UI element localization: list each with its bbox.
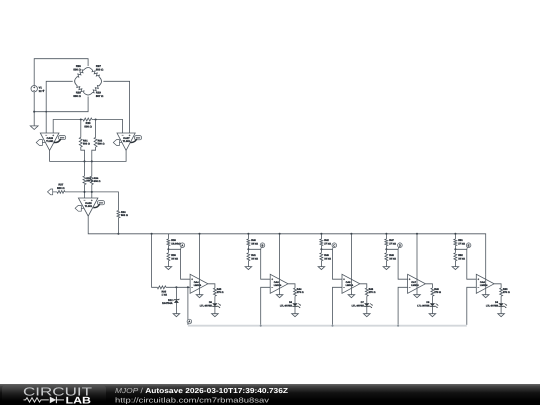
node main-power stage1 xyxy=(198,233,200,235)
wire bridge right node to OA27 input xyxy=(103,81,129,133)
resistor R44 stage2 xyxy=(294,288,297,296)
wire output stage5 xyxy=(494,284,501,288)
svg-text:1 kΩ: 1 kΩ xyxy=(162,294,167,297)
op-amp OA26 xyxy=(40,133,59,150)
resistor R53 stage5 xyxy=(500,288,503,296)
resistor R49 stage4 xyxy=(431,288,434,296)
resistor R30 xyxy=(83,118,92,121)
wire R30 to OA27 -in xyxy=(92,120,123,134)
node main-divider stage2 xyxy=(247,233,249,235)
LED D5 stage1 xyxy=(212,303,217,306)
wire output stage2 xyxy=(288,284,295,288)
net flag R37 xyxy=(48,189,53,195)
resistor bridge R26 R27 R28 R29 xyxy=(75,67,102,95)
node main-power stage2 xyxy=(279,233,281,235)
flag D stage4 xyxy=(397,247,400,249)
node divider tap stage4 xyxy=(385,248,387,250)
svg-text:LM324: LM324 xyxy=(194,284,202,287)
ground op-amp stage4 xyxy=(414,295,421,298)
wire V1 minus to bridge bottom xyxy=(34,92,88,112)
power flag OA27 right xyxy=(134,136,141,140)
node bus junction xyxy=(397,325,399,327)
svg-text:1N4734A: 1N4734A xyxy=(162,302,173,305)
op-amp OA7 stage4 xyxy=(408,274,426,293)
wire bus riser stage1 xyxy=(187,287,189,325)
svg-text:270 Ω: 270 Ω xyxy=(434,291,441,294)
wire output stage4 xyxy=(425,284,432,288)
node main-divider stage4 xyxy=(385,233,387,235)
resistor R32 xyxy=(95,120,97,138)
op-amp OA5 stage2 xyxy=(270,274,288,293)
flag B stage2 xyxy=(260,247,263,249)
node V1-gnd junction xyxy=(33,111,35,113)
ground LED stage3 xyxy=(364,314,371,317)
wire -in to bus stage5 xyxy=(467,287,477,325)
svg-text:D: D xyxy=(399,243,401,247)
wire tap to +in stage1 xyxy=(168,249,190,279)
node divider tap stage2 xyxy=(247,248,249,250)
ground divider stage3 xyxy=(318,267,325,270)
ground op-amp stage5 xyxy=(482,295,489,298)
wire OA26 +in to R30 xyxy=(53,120,83,134)
svg-text:507 Ω: 507 Ω xyxy=(96,95,104,98)
resistor R41 stage2 xyxy=(247,249,249,253)
node out-R33 xyxy=(83,160,85,162)
resistor R46 stage3 xyxy=(365,288,368,296)
svg-text:10 kΩ: 10 kΩ xyxy=(171,257,178,260)
node divider tap stage5 xyxy=(454,248,456,250)
flag A stage1 xyxy=(180,247,183,249)
svg-text:10 kΩ: 10 kΩ xyxy=(389,257,396,260)
ground LED stage1 xyxy=(212,314,219,317)
wire output stage3 xyxy=(360,284,367,288)
resistor R35 xyxy=(157,286,166,289)
node divider tap stage3 xyxy=(320,248,322,250)
wire R37 to R36 xyxy=(65,192,118,211)
svg-text:TL081: TL081 xyxy=(85,205,93,208)
ground LED stage5 xyxy=(498,314,505,317)
LED D9 stage5 xyxy=(498,303,503,306)
svg-text:18 kΩ: 18 kΩ xyxy=(251,242,258,245)
node bus junction xyxy=(332,325,334,327)
svg-text:500 Ω: 500 Ω xyxy=(94,180,101,183)
node zener xyxy=(175,286,177,288)
ground LED stage4 xyxy=(429,314,436,317)
svg-text:27 kΩ: 27 kΩ xyxy=(458,242,465,245)
LED D8 stage4 xyxy=(430,303,435,306)
ground op-amp stage1 xyxy=(196,295,203,298)
node R30-R31 xyxy=(80,118,82,120)
svg-text:E: E xyxy=(468,243,470,247)
resistor R45 stage3 xyxy=(320,249,322,253)
label V1 mark xyxy=(43,90,45,92)
node main-divider stage5 xyxy=(454,233,456,235)
wire power pin stage5 xyxy=(485,275,487,295)
ground below V1 xyxy=(30,126,38,130)
resistor R31 xyxy=(80,120,82,138)
wire power pin stage4 xyxy=(416,234,418,295)
node R36 output xyxy=(117,233,119,235)
svg-text:MJOP / Autosave 2026-03-10T17:: MJOP / Autosave 2026-03-10T17:39:40.736Z xyxy=(115,386,289,395)
power flag OA26 left xyxy=(42,142,45,144)
ground op-amp stage2 xyxy=(276,295,283,298)
svg-text:LTL-307EE: LTL-307EE xyxy=(486,304,499,307)
svg-text:270 Ω: 270 Ω xyxy=(503,291,510,294)
svg-text:C: C xyxy=(333,243,335,247)
ground op-amp stage3 xyxy=(348,295,355,298)
node R37-OA28 minus xyxy=(83,191,85,193)
node bus junction xyxy=(260,325,262,327)
node out-R34 xyxy=(91,160,93,162)
svg-text:B: B xyxy=(262,243,264,247)
svg-text:LTL-307EE: LTL-307EE xyxy=(417,304,430,307)
resistor R42 stage3 xyxy=(320,234,322,239)
svg-text:270 Ω: 270 Ω xyxy=(369,291,376,294)
wire tap to +in stage4 xyxy=(386,249,407,279)
power flag OA26 right xyxy=(59,136,66,140)
svg-text:27 kΩ: 27 kΩ xyxy=(389,242,396,245)
svg-text:500 Ω: 500 Ω xyxy=(83,142,90,145)
ground zener xyxy=(173,314,180,317)
node divider tap stage1 xyxy=(167,248,169,250)
node R30-R32 xyxy=(95,118,97,120)
svg-text:A: A xyxy=(188,320,190,324)
svg-text:500 Ω: 500 Ω xyxy=(84,126,92,129)
node main-divider stage3 xyxy=(320,233,322,235)
svg-text:270 Ω: 270 Ω xyxy=(217,291,224,294)
node main-power stage4 xyxy=(416,233,418,235)
wire signal tap stage1 xyxy=(151,233,153,235)
logo resistor-diode motif xyxy=(24,398,49,402)
node main-power stage3 xyxy=(350,233,352,235)
svg-text:LM324: LM324 xyxy=(274,284,282,287)
wire -in to bus stage4 xyxy=(398,287,408,325)
svg-text:TL081: TL081 xyxy=(46,140,54,143)
wire to ground xyxy=(33,112,35,126)
svg-text:LM324: LM324 xyxy=(346,284,354,287)
resistor R36 xyxy=(117,211,120,218)
resistor R33 xyxy=(84,161,86,176)
svg-text:10 kΩ: 10 kΩ xyxy=(251,257,258,260)
wire bridge left node to OA26 input xyxy=(46,81,72,133)
resistor R34 xyxy=(91,161,93,176)
svg-text:500 Ω: 500 Ω xyxy=(57,187,65,190)
op-amp OA6 stage3 xyxy=(342,274,360,293)
power flag OA28 right xyxy=(97,201,104,205)
ground divider stage2 xyxy=(245,267,252,270)
node bus riser stage1 xyxy=(187,286,189,288)
wire power pin stage2 xyxy=(279,234,281,295)
flag E stage5 xyxy=(466,247,469,249)
wire power pin stage1 xyxy=(199,234,201,295)
svg-text:500 Ω: 500 Ω xyxy=(73,95,81,98)
zener diode D12 xyxy=(175,287,177,299)
wire V1 plus to bridge top xyxy=(34,59,88,86)
power flag OA27 left xyxy=(119,142,122,144)
power flag OA28 left xyxy=(81,207,84,209)
ground divider stage1 xyxy=(165,267,172,270)
svg-text:LTL-307EE: LTL-307EE xyxy=(280,304,293,307)
wire -in to bus stage3 xyxy=(333,287,343,325)
flag bus xyxy=(187,323,189,324)
svg-text:27 kΩ: 27 kΩ xyxy=(324,242,331,245)
wire tap to +in stage3 xyxy=(321,249,342,279)
svg-text:10 kΩ: 10 kΩ xyxy=(458,257,465,260)
wire tap to +in stage5 xyxy=(455,249,476,279)
wire output stage1 xyxy=(208,284,215,288)
svg-text:LTL-307EE: LTL-307EE xyxy=(200,304,213,307)
op-amp OA27 xyxy=(117,133,135,150)
resistor R51 stage5 xyxy=(454,234,456,239)
svg-text:http://circuitlab.com/cm7rbma8: http://circuitlab.com/cm7rbma8u8sav xyxy=(115,395,270,404)
node crossing xyxy=(45,111,47,113)
LED D7 stage3 xyxy=(364,303,369,306)
resistor R37 xyxy=(57,191,65,194)
svg-text:500 Ω: 500 Ω xyxy=(98,142,105,145)
svg-text:500 Ω: 500 Ω xyxy=(96,69,104,72)
reference bus wire xyxy=(188,325,467,327)
svg-text:500 Ω: 500 Ω xyxy=(73,69,81,72)
wire power pin stage3 xyxy=(350,234,352,295)
wire -in to bus stage2 xyxy=(261,287,271,325)
node R37-OA28 plus xyxy=(91,191,93,193)
svg-text:A: A xyxy=(181,243,183,247)
resistor R47 stage4 xyxy=(385,234,387,239)
resistor R40 stage2 xyxy=(247,234,249,239)
svg-text:270 Ω: 270 Ω xyxy=(297,291,304,294)
resistor R38 stage1 xyxy=(167,234,169,239)
svg-text:LM324: LM324 xyxy=(480,284,488,287)
svg-text:LM324: LM324 xyxy=(411,284,419,287)
resistor R48 stage4 xyxy=(385,249,387,253)
LED D6 stage2 xyxy=(292,303,297,306)
flag C stage3 xyxy=(332,247,335,249)
voltage source V1 xyxy=(31,86,37,92)
op-amp OA8 stage5 xyxy=(476,274,494,293)
resistor R43 stage1 xyxy=(214,288,217,296)
ground divider stage4 xyxy=(383,267,390,270)
svg-text:500 Ω: 500 Ω xyxy=(121,214,128,217)
svg-text:LAB: LAB xyxy=(66,395,92,405)
wire OA28 output main line xyxy=(88,216,486,275)
op-amp OA4 stage1 xyxy=(190,274,208,293)
svg-text:13.04kΩ: 13.04kΩ xyxy=(171,242,181,245)
wire OA26 output xyxy=(50,150,127,161)
svg-text:TL081: TL081 xyxy=(123,140,131,143)
svg-text:10 kΩ: 10 kΩ xyxy=(324,257,331,260)
ground LED stage2 xyxy=(292,314,299,317)
resistor R39 stage1 xyxy=(167,249,169,253)
ground divider stage5 xyxy=(452,267,459,270)
resistor R52 stage5 xyxy=(454,249,456,253)
svg-text:LTL-307EE: LTL-307EE xyxy=(352,304,365,307)
op-amp OA28 xyxy=(78,198,98,216)
wire tap to +in stage2 xyxy=(248,249,270,279)
